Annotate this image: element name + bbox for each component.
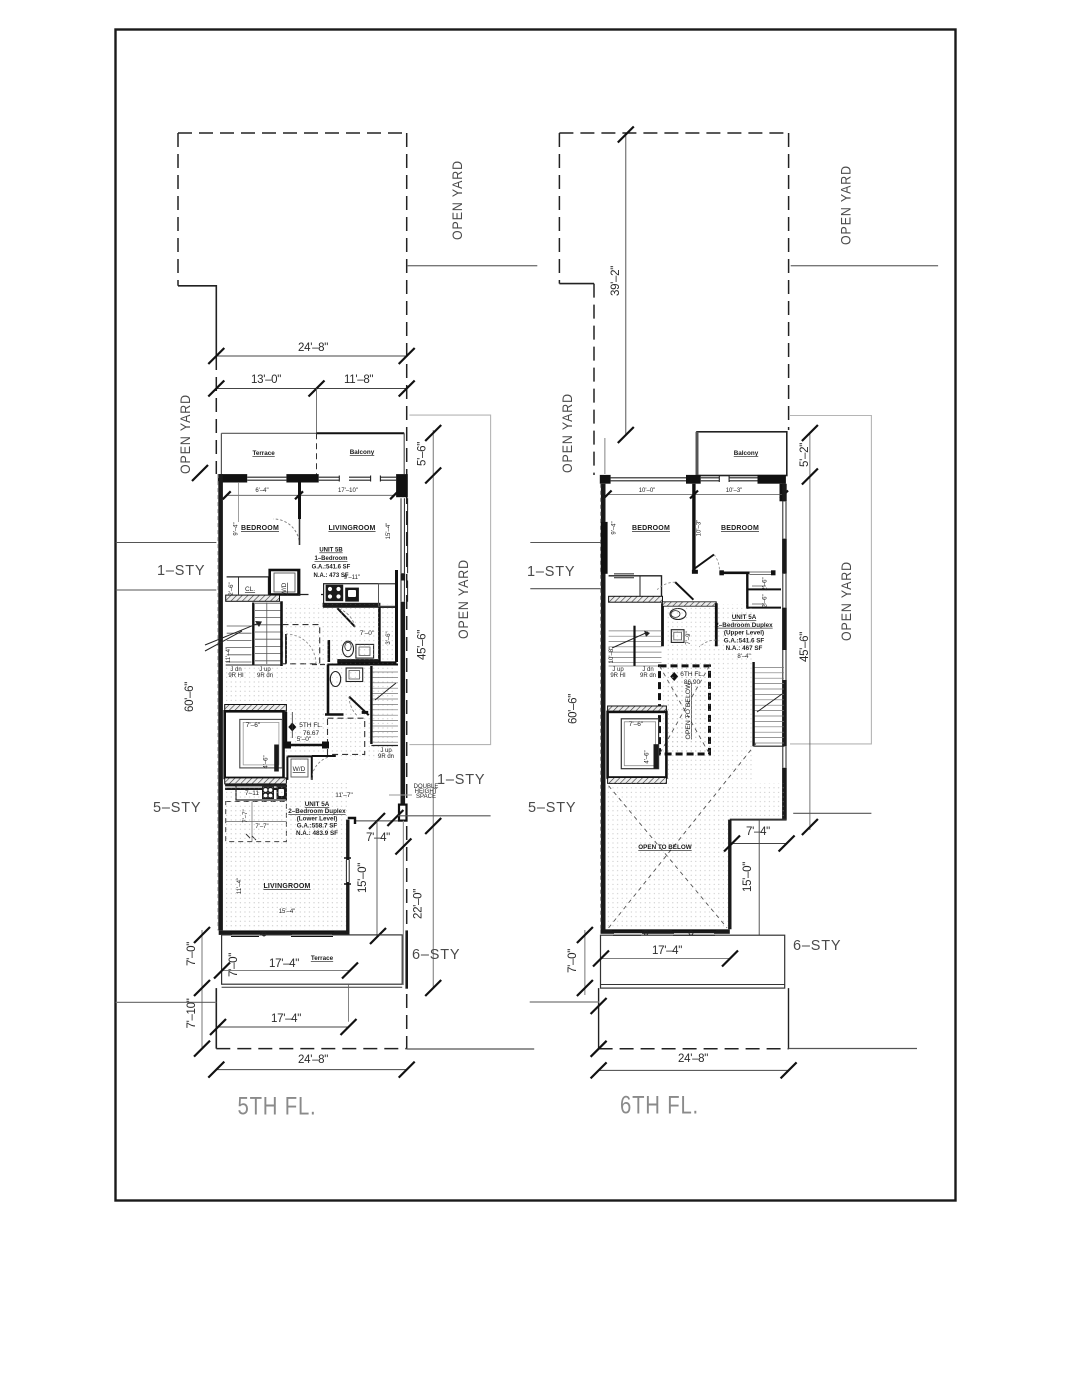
svg-text:OPEN YARD: OPEN YARD — [450, 160, 465, 240]
15'-0" dim — [376, 821, 378, 936]
svg-text:11'–4": 11'–4" — [226, 647, 232, 663]
svg-text:7'–6": 7'–6" — [246, 722, 261, 729]
svg-text:10'–3": 10'–3" — [697, 520, 703, 537]
svg-text:15'–4": 15'–4" — [279, 909, 296, 915]
svg-text:BEDROOM: BEDROOM — [632, 525, 670, 532]
W/D — [270, 570, 299, 595]
svg-text:9'–4": 9'–4" — [612, 521, 618, 534]
W/D room B — [287, 756, 311, 780]
39'-2" dim — [625, 135, 627, 436]
svg-text:7'–4": 7'–4" — [366, 832, 390, 844]
svg-text:Terrace: Terrace — [252, 450, 275, 457]
svg-text:Balcony: Balcony — [350, 449, 375, 456]
right stairs B (horizontal treads) — [373, 672, 398, 742]
terrace / balcony strip — [221, 432, 316, 434]
svg-text:15'–4": 15'–4" — [386, 523, 392, 540]
below terrace — [116, 1001, 217, 1003]
left exterior wall — [218, 474, 223, 930]
svg-text:5TH FL.: 5TH FL. — [238, 1093, 317, 1121]
svg-text:5'–2": 5'–2" — [799, 443, 811, 467]
bath A — [380, 606, 398, 608]
svg-text:11'–4": 11'–4" — [237, 878, 243, 894]
svg-text:6'–4": 6'–4" — [255, 488, 268, 494]
front wall — [218, 474, 247, 482]
dashed opening rect — [328, 718, 365, 754]
svg-text:13'–0": 13'–0" — [251, 374, 281, 386]
door arc bedroom — [274, 519, 300, 545]
terrace 2 — [222, 935, 403, 984]
svg-text:2'–6": 2'–6" — [229, 582, 235, 595]
svg-text:10'–3": 10'–3" — [726, 488, 743, 494]
svg-text:7'–6": 7'–6" — [629, 721, 644, 728]
svg-text:Terrace: Terrace — [311, 955, 334, 962]
svg-text:5TH FL.: 5TH FL. — [299, 722, 323, 729]
livingroom right wall — [346, 820, 349, 935]
dashed counter area — [226, 802, 287, 842]
svg-text:7'–0": 7'–0" — [228, 953, 240, 977]
stairs (horizontal treads) — [609, 626, 662, 666]
svg-text:BEDROOM: BEDROOM — [721, 525, 759, 532]
balcony — [697, 432, 787, 476]
svg-text:4'–6": 4'–6" — [645, 750, 651, 763]
svg-text:1–STY: 1–STY — [157, 563, 205, 579]
wall betw kitchen + hall — [297, 570, 300, 595]
svg-text:17'–10": 17'–10" — [338, 488, 358, 494]
svg-text:OPEN TO BELOW: OPEN TO BELOW — [638, 844, 691, 851]
svg-text:LIVINGROOM: LIVINGROOM — [263, 883, 310, 890]
svg-text:7'–10": 7'–10" — [186, 998, 198, 1028]
dotted floor hall — [284, 604, 396, 760]
svg-text:9'–11": 9'–11" — [344, 575, 360, 581]
svg-text:24'–8": 24'–8" — [298, 342, 328, 354]
left exterior wall — [601, 484, 606, 930]
terrace — [601, 935, 785, 988]
svg-text:1–Bedroom: 1–Bedroom — [314, 556, 347, 562]
bedrooms — [692, 484, 695, 572]
border frame — [116, 30, 956, 1201]
svg-text:OPEN YARD: OPEN YARD — [178, 394, 193, 474]
right exterior wall — [782, 484, 787, 820]
22'-0" extension line — [402, 821, 404, 985]
svg-text:W/D: W/D — [281, 582, 288, 595]
svg-text:9R HI: 9R HI — [610, 673, 626, 679]
svg-text:1–STY: 1–STY — [437, 772, 485, 788]
svg-text:15'–0": 15'–0" — [357, 863, 369, 893]
svg-text:5'–0": 5'–0" — [297, 736, 312, 743]
small open to below — [660, 666, 710, 754]
notch top line / 7'-4" dim — [354, 820, 398, 822]
wall with posts (hall/landing) — [284, 744, 327, 746]
double doors — [694, 555, 714, 570]
svg-text:2'–6": 2'–6" — [763, 594, 769, 607]
svg-text:2'–6": 2'–6" — [763, 577, 769, 590]
big open to below — [606, 783, 785, 929]
kitchen unit 5B — [324, 584, 397, 608]
svg-text:1–STY: 1–STY — [527, 564, 575, 580]
svg-text:5'–6": 5'–6" — [417, 442, 429, 466]
hall dots — [666, 604, 753, 782]
svg-text:6–STY: 6–STY — [412, 947, 460, 963]
closet left — [609, 576, 662, 597]
level marker + texts — [288, 723, 296, 732]
bedroom / livingroom — [298, 481, 301, 519]
livingroom 5A — [226, 783, 347, 930]
notch — [730, 819, 787, 821]
svg-text:10'–0": 10'–0" — [639, 488, 656, 494]
bottom wall — [601, 929, 730, 934]
right exterior wall with window gaps — [400, 573, 405, 809]
svg-text:UNIT 5B: UNIT 5B — [319, 548, 343, 554]
svg-text:60'–6": 60'–6" — [567, 694, 579, 724]
bath — [661, 603, 664, 646]
svg-text:4'–6": 4'–6" — [264, 755, 270, 768]
svg-text:39'–2": 39'–2" — [610, 266, 622, 296]
right closets — [746, 574, 748, 609]
svg-text:7'–0": 7'–0" — [567, 949, 579, 973]
right stairs — [755, 667, 784, 743]
svg-text:OPEN YARD: OPEN YARD — [839, 561, 854, 641]
svg-text:6TH FL.: 6TH FL. — [620, 1092, 699, 1120]
stairs A (two flights, horizontal treads) — [227, 603, 281, 665]
svg-text:G.A.:541.6 SF: G.A.:541.6 SF — [312, 565, 351, 571]
svg-text:LIVINGROOM: LIVINGROOM — [328, 525, 375, 532]
hall wall above closets — [719, 571, 749, 574]
hatched wall band — [226, 595, 280, 601]
gray yard line right of top yard — [407, 265, 537, 267]
svg-text:OPEN YARD: OPEN YARD — [560, 393, 575, 473]
svg-text:5–STY: 5–STY — [153, 800, 201, 816]
svg-text:5–STY: 5–STY — [528, 800, 576, 816]
svg-text:BEDROOM: BEDROOM — [241, 525, 279, 532]
svg-text:9R dn: 9R dn — [640, 673, 656, 679]
kitchen 5A — [225, 784, 286, 786]
bottom wall — [219, 930, 349, 935]
svg-text:15'–0": 15'–0" — [742, 862, 754, 892]
svg-text:60'–6": 60'–6" — [184, 682, 196, 712]
svg-text:24'–8": 24'–8" — [678, 1053, 708, 1065]
svg-text:45'–6": 45'–6" — [417, 630, 429, 660]
svg-text:17'–4": 17'–4" — [271, 1013, 301, 1025]
svg-text:45'–6": 45'–6" — [799, 632, 811, 662]
front wall — [600, 475, 611, 484]
elevator — [225, 705, 287, 712]
svg-text:CL.: CL. — [245, 586, 255, 593]
bath B — [328, 664, 399, 666]
svg-text:SPACE: SPACE — [416, 794, 436, 800]
svg-text:7'–0": 7'–0" — [186, 942, 198, 966]
svg-text:10'–8": 10'–8" — [609, 647, 615, 664]
svg-text:7'–4": 7'–4" — [746, 826, 770, 838]
svg-text:Balcony: Balcony — [734, 450, 759, 457]
svg-text:OPEN YARD: OPEN YARD — [456, 559, 471, 639]
svg-text:W/D: W/D — [293, 766, 306, 773]
svg-text:17'–4": 17'–4" — [269, 958, 299, 970]
svg-text:11'–8": 11'–8" — [344, 374, 373, 386]
svg-text:17'–4": 17'–4" — [652, 945, 682, 957]
svg-text:24'–8": 24'–8" — [298, 1054, 328, 1066]
door from kitchen/hall to bath A — [337, 608, 355, 627]
CL closet — [227, 577, 269, 595]
svg-text:9'–4": 9'–4" — [234, 522, 240, 535]
svg-text:6–STY: 6–STY — [793, 938, 841, 954]
svg-text:OPEN YARD: OPEN YARD — [838, 165, 853, 245]
yard dashed boundary — [559, 133, 788, 1049]
svg-text:9R dn: 9R dn — [378, 754, 394, 760]
elevator — [608, 706, 667, 712]
level marker — [670, 672, 678, 681]
svg-text:22'–0": 22'–0" — [413, 889, 425, 919]
